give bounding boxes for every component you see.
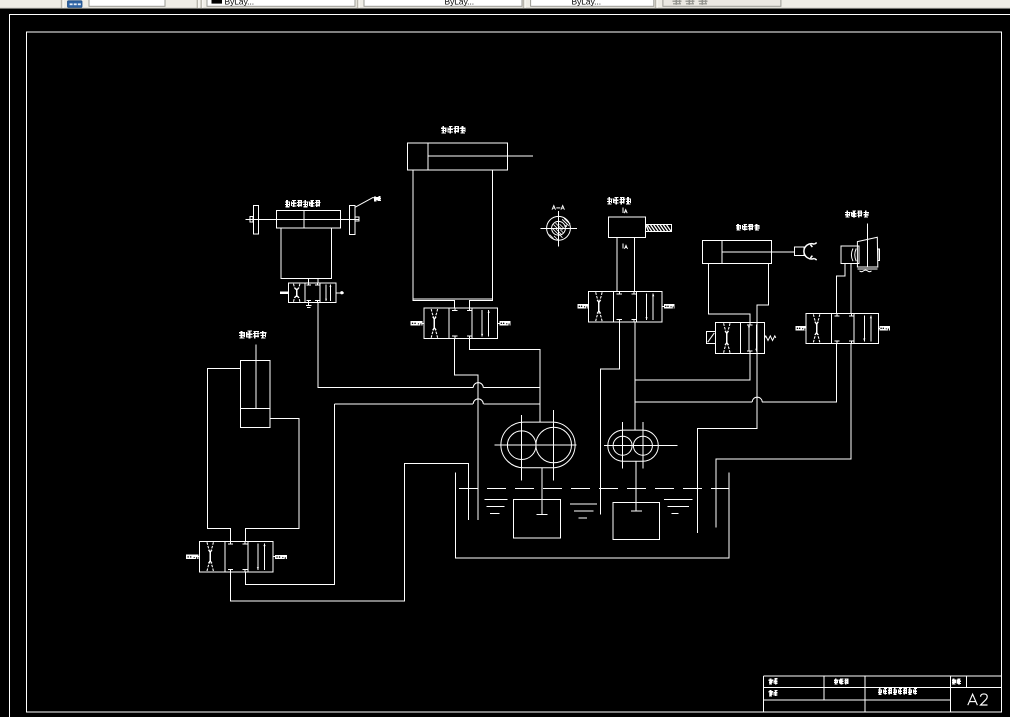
svg-text:ByLay...: ByLay... [225, 0, 255, 6]
svg-text:ByLay...: ByLay... [572, 0, 602, 6]
svg-text:ByLay...: ByLay... [445, 0, 475, 6]
